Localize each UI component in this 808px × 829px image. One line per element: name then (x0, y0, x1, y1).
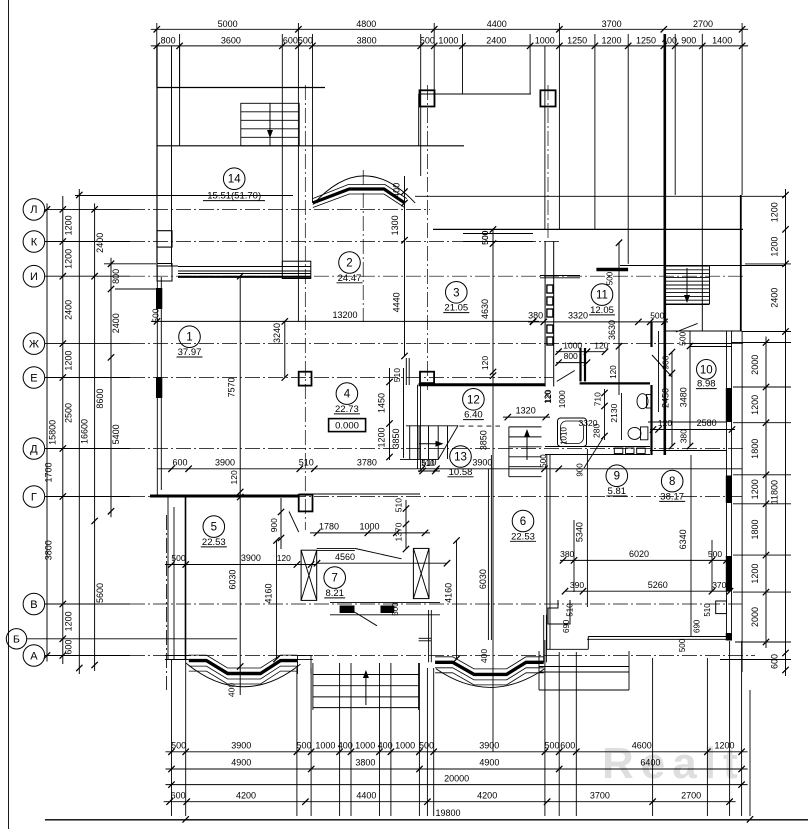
svg-text:400: 400 (479, 649, 489, 663)
svg-text:500: 500 (298, 35, 313, 45)
svg-text:2400: 2400 (770, 288, 780, 308)
svg-text:6340: 6340 (678, 529, 688, 549)
svg-text:710: 710 (592, 392, 602, 406)
svg-text:В: В (30, 599, 37, 611)
svg-text:5000: 5000 (218, 19, 238, 29)
svg-text:1200: 1200 (64, 249, 74, 269)
svg-text:1000: 1000 (438, 35, 458, 45)
svg-text:510: 510 (392, 368, 402, 382)
svg-text:5600: 5600 (95, 583, 105, 603)
svg-text:5400: 5400 (111, 424, 121, 444)
svg-text:6.40: 6.40 (464, 410, 483, 421)
svg-text:1200: 1200 (64, 351, 74, 371)
svg-text:3800: 3800 (355, 758, 375, 768)
svg-text:И: И (30, 271, 38, 283)
svg-text:2000: 2000 (750, 607, 760, 627)
svg-text:2130: 2130 (609, 403, 619, 422)
svg-text:1400: 1400 (712, 35, 732, 45)
svg-text:38.17: 38.17 (660, 491, 684, 502)
svg-text:900: 900 (681, 35, 696, 45)
svg-text:15800: 15800 (48, 420, 58, 445)
svg-text:500: 500 (480, 230, 490, 244)
svg-text:Л: Л (30, 204, 37, 216)
svg-text:390: 390 (570, 580, 584, 590)
svg-text:4900: 4900 (479, 758, 499, 768)
svg-text:600: 600 (560, 741, 575, 751)
svg-text:1200: 1200 (714, 741, 734, 751)
svg-text:2400: 2400 (64, 300, 74, 320)
svg-text:8: 8 (669, 476, 675, 488)
svg-text:3900: 3900 (479, 741, 499, 751)
svg-text:3800: 3800 (357, 35, 377, 45)
svg-text:Б: Б (13, 633, 20, 645)
svg-text:500: 500 (650, 310, 664, 320)
svg-text:3850: 3850 (479, 430, 489, 450)
svg-text:600: 600 (770, 654, 780, 669)
svg-text:4160: 4160 (444, 583, 454, 603)
svg-text:1200: 1200 (750, 564, 760, 584)
svg-text:600: 600 (172, 457, 187, 467)
svg-text:510: 510 (566, 603, 575, 617)
svg-text:4900: 4900 (231, 758, 251, 768)
svg-text:500: 500 (296, 741, 311, 751)
svg-text:4200: 4200 (236, 790, 256, 800)
svg-text:7570: 7570 (227, 377, 237, 397)
svg-text:К: К (31, 236, 38, 248)
svg-text:1000: 1000 (359, 521, 379, 531)
svg-text:1000: 1000 (355, 741, 375, 751)
svg-text:380: 380 (560, 549, 574, 559)
svg-text:4400: 4400 (487, 19, 507, 29)
svg-text:6030: 6030 (478, 569, 488, 589)
svg-text:1000: 1000 (558, 390, 567, 408)
svg-text:3800: 3800 (44, 540, 54, 560)
svg-text:3780: 3780 (357, 457, 377, 467)
svg-text:500: 500 (419, 741, 434, 751)
svg-text:2700: 2700 (693, 19, 713, 29)
svg-text:800: 800 (161, 35, 176, 45)
svg-text:10.58: 10.58 (449, 467, 473, 478)
svg-text:1010: 1010 (560, 427, 569, 445)
svg-text:2450: 2450 (661, 388, 671, 408)
svg-text:Д: Д (30, 443, 38, 455)
svg-text:1300: 1300 (390, 215, 400, 235)
svg-text:1000: 1000 (535, 35, 555, 45)
svg-text:370: 370 (712, 580, 726, 590)
svg-text:2400: 2400 (486, 35, 506, 45)
svg-text:690: 690 (692, 619, 701, 633)
svg-text:800: 800 (111, 269, 121, 284)
svg-text:Ж: Ж (29, 338, 39, 350)
svg-text:13: 13 (454, 452, 467, 464)
svg-text:5: 5 (211, 522, 217, 534)
svg-text:1780: 1780 (319, 521, 339, 531)
svg-text:3700: 3700 (590, 790, 610, 800)
svg-text:6020: 6020 (629, 549, 649, 559)
svg-text:12: 12 (467, 394, 480, 406)
svg-text:120: 120 (609, 365, 618, 379)
svg-text:1370: 1370 (394, 522, 404, 541)
svg-text:11: 11 (596, 290, 608, 302)
svg-text:22.53: 22.53 (511, 531, 535, 542)
svg-text:120: 120 (277, 553, 291, 563)
svg-text:4440: 4440 (392, 292, 402, 312)
svg-text:1700: 1700 (44, 462, 54, 482)
svg-text:2000: 2000 (750, 355, 760, 375)
svg-text:3700: 3700 (602, 19, 622, 29)
svg-text:2700: 2700 (681, 790, 701, 800)
svg-text:21.05: 21.05 (444, 303, 468, 314)
svg-text:3320: 3320 (568, 310, 588, 320)
svg-text:120: 120 (480, 356, 490, 370)
svg-text:600: 600 (64, 640, 74, 655)
svg-text:8.98: 8.98 (697, 379, 716, 390)
svg-text:500: 500 (391, 602, 400, 616)
svg-text:16600: 16600 (80, 419, 90, 444)
svg-text:1200: 1200 (770, 237, 780, 257)
svg-text:22.73: 22.73 (335, 404, 359, 415)
svg-text:510: 510 (394, 498, 404, 512)
svg-text:1450: 1450 (377, 393, 387, 413)
svg-text:3: 3 (453, 287, 459, 299)
svg-text:500: 500 (171, 741, 186, 751)
svg-text:1: 1 (186, 332, 192, 344)
svg-text:120: 120 (658, 418, 672, 428)
svg-text:510: 510 (299, 457, 314, 467)
svg-text:1250: 1250 (636, 35, 656, 45)
svg-text:800: 800 (564, 351, 578, 361)
svg-text:120: 120 (544, 390, 553, 404)
svg-text:4800: 4800 (356, 19, 376, 29)
svg-text:Е: Е (30, 372, 37, 384)
svg-text:500: 500 (171, 553, 185, 563)
svg-text:400: 400 (392, 183, 402, 198)
svg-text:6400: 6400 (640, 758, 660, 768)
svg-text:13200: 13200 (332, 310, 357, 320)
svg-text:510: 510 (703, 603, 712, 617)
svg-text:1200: 1200 (750, 479, 760, 499)
svg-text:500: 500 (708, 549, 722, 559)
svg-text:2580: 2580 (697, 418, 717, 428)
svg-text:3900: 3900 (472, 457, 492, 467)
svg-text:2500: 2500 (64, 403, 74, 423)
svg-text:900: 900 (576, 463, 585, 477)
svg-text:3480: 3480 (679, 387, 689, 407)
svg-text:2: 2 (346, 258, 352, 270)
svg-text:4: 4 (344, 389, 351, 401)
svg-text:37.97: 37.97 (178, 347, 202, 358)
svg-text:1800: 1800 (750, 439, 760, 459)
svg-text:690: 690 (562, 619, 571, 633)
svg-text:3900: 3900 (231, 741, 251, 751)
svg-text:19800: 19800 (435, 808, 460, 818)
svg-text:3600: 3600 (221, 35, 241, 45)
svg-text:2400: 2400 (111, 313, 121, 333)
svg-text:1200: 1200 (770, 202, 780, 222)
svg-text:6030: 6030 (227, 570, 237, 590)
svg-text:8.21: 8.21 (325, 588, 344, 599)
svg-text:5340: 5340 (574, 522, 584, 542)
svg-text:9: 9 (614, 471, 620, 483)
svg-text:11800: 11800 (770, 480, 780, 504)
svg-text:1200: 1200 (377, 427, 387, 447)
svg-text:500: 500 (606, 271, 615, 285)
svg-text:1250: 1250 (567, 35, 587, 45)
svg-text:4400: 4400 (356, 790, 376, 800)
svg-text:380: 380 (528, 310, 543, 320)
svg-text:500: 500 (420, 35, 435, 45)
svg-text:600: 600 (283, 35, 298, 45)
svg-text:600: 600 (171, 790, 186, 800)
svg-text:А: А (30, 650, 38, 662)
svg-text:5260: 5260 (648, 580, 668, 590)
svg-text:4630: 4630 (480, 299, 490, 319)
svg-text:3320: 3320 (579, 418, 598, 428)
svg-text:900: 900 (269, 518, 279, 532)
svg-text:24.47: 24.47 (338, 273, 362, 284)
svg-text:500: 500 (544, 741, 559, 751)
svg-text:1000: 1000 (395, 741, 415, 751)
svg-text:1200: 1200 (64, 611, 74, 631)
svg-text:15.51(51.70): 15.51(51.70) (207, 191, 261, 202)
svg-text:900: 900 (661, 355, 671, 369)
svg-text:3900: 3900 (241, 553, 261, 563)
svg-text:3900: 3900 (215, 457, 235, 467)
svg-text:6: 6 (520, 516, 526, 528)
svg-text:1200: 1200 (750, 395, 760, 415)
svg-text:0.000: 0.000 (335, 420, 359, 431)
svg-text:Г: Г (31, 491, 37, 503)
svg-text:22.53: 22.53 (202, 537, 226, 548)
svg-text:500: 500 (678, 638, 687, 652)
svg-text:7: 7 (331, 573, 337, 585)
svg-text:120: 120 (594, 340, 608, 350)
svg-text:120: 120 (229, 470, 239, 484)
svg-text:510: 510 (421, 459, 435, 468)
svg-text:5.81: 5.81 (608, 486, 627, 497)
svg-text:10: 10 (700, 364, 713, 376)
svg-text:4160: 4160 (264, 583, 274, 603)
svg-text:1200: 1200 (601, 35, 621, 45)
svg-text:3240: 3240 (272, 323, 282, 343)
svg-text:2400: 2400 (95, 233, 105, 253)
svg-text:4560: 4560 (335, 552, 355, 562)
svg-text:500: 500 (678, 331, 688, 345)
svg-text:380: 380 (679, 429, 689, 443)
svg-text:12.05: 12.05 (590, 305, 614, 316)
svg-text:20000: 20000 (444, 773, 469, 783)
svg-text:500: 500 (151, 308, 161, 322)
svg-text:3850: 3850 (391, 428, 401, 448)
svg-text:4600: 4600 (632, 741, 652, 751)
svg-text:1200: 1200 (64, 215, 74, 235)
svg-text:1000: 1000 (563, 340, 582, 350)
svg-text:400: 400 (227, 683, 237, 697)
svg-text:4200: 4200 (477, 790, 497, 800)
svg-text:1000: 1000 (315, 741, 335, 751)
svg-text:1800: 1800 (750, 519, 760, 539)
svg-text:1320: 1320 (516, 406, 536, 416)
svg-text:3630: 3630 (607, 320, 617, 340)
svg-text:8600: 8600 (95, 389, 105, 409)
svg-text:14: 14 (228, 174, 241, 186)
